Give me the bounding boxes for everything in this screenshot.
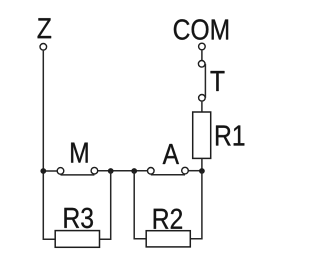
resistor R3 [55,208,99,248]
wire bus junction down to R3 left lead [43,171,55,239]
switch M [57,143,97,175]
resistor R1 [193,112,245,158]
resistor R2 [146,209,190,247]
junction dot (R2 left branch) [131,168,137,174]
terminal Z [38,18,52,50]
junction dot (Z/bus) [40,168,46,174]
wire R3 right branch down [100,171,111,239]
junction dot (R3 right branch) [108,168,114,174]
wire bus middle segment [96,170,149,172]
switch T [198,61,224,102]
wire R2 right branch down [190,171,202,239]
terminal COM [174,19,228,50]
switch A [148,144,189,175]
wire Z to bus junction [42,51,44,171]
wire R1 to bus junction [201,158,203,171]
wire bus left segment [43,170,58,172]
junction dot (R1/bus) [199,168,205,174]
wire R2 left branch down [134,171,146,239]
wire COM to switch T [201,50,203,60]
wire bus right segment [187,170,202,172]
wire switch T to R1 [201,102,203,112]
